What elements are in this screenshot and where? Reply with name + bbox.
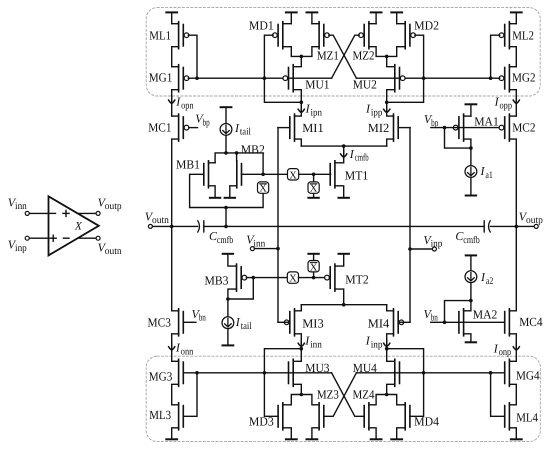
transistor ML1 [179,22,189,49]
label Vinp (op-amp) [8,237,27,254]
svg-text:MC3: MC3 [148,315,171,329]
wire MZ4 gate cross-couple diagonal [332,373,365,417]
svg-text:outn: outn [152,215,169,226]
wire MG2 gate node (right gate wire) [356,77,499,79]
label Ccmfb (left) [209,229,233,246]
svg-text:ML2: ML2 [512,28,534,42]
node MT1 gate junction [312,173,316,177]
wire MT2 source [335,254,349,266]
wire MD3 leads [283,395,302,440]
VDD supply bar above ML1 [166,12,177,23]
node ML3-MG3 gate junction [195,371,199,375]
svg-text:cmfb: cmfb [355,153,369,164]
svg-text:MU3: MU3 [305,361,329,375]
terminal Voutn [148,224,197,228]
transistor MI4 [394,309,404,336]
svg-text:MC1: MC1 [148,121,171,135]
node Vbp junction [443,126,447,130]
label Ionn [175,341,193,358]
svg-text:MA1: MA1 [474,114,499,128]
label Iopp [494,95,512,112]
svg-text:X: X [310,184,318,195]
wire MU2 leads [387,56,395,102]
label Vbp (left) [195,112,209,129]
svg-text:a1: a1 [485,170,493,181]
label MU3 [305,361,329,375]
svg-text:MT1: MT1 [345,169,369,183]
label MZ2 [353,49,375,63]
svg-text:MZ3: MZ3 [317,387,339,401]
svg-text:MC4: MC4 [519,315,543,329]
op-amp polarity signs [50,210,69,241]
wire MC3 leads [172,226,179,361]
transistor MZ2 [359,22,369,49]
wire MI4 drain [387,334,394,349]
node MU3 drain / MI3 drain [300,347,304,351]
node MU1 source / MI1 drain [300,101,304,105]
wire MZ2 gate cross-couple diagonal [332,35,360,78]
label MG3 [149,370,173,384]
svg-text:X: X [289,274,297,285]
svg-text:MB2: MB2 [241,143,265,157]
transistor MG3 [179,359,184,386]
wire MT2 drain [335,289,344,305]
node MD3-MZ3-MU3 drain [300,393,304,397]
label MU2 [353,77,377,91]
label Vbp (right) [424,112,438,129]
svg-text:X: X [259,184,267,195]
wire Vbp bias line (right) [431,127,500,129]
terminal Vinn tap [250,247,278,251]
switch box Xbar (left) [258,182,269,195]
wire MU1 leads [293,56,301,102]
transistor MT2 [325,264,335,291]
label MU1 [305,77,329,91]
label MT2 [345,272,369,286]
label Voutp (op-amp) [98,195,122,212]
terminal Vinp tap [410,247,436,251]
label MB1 [176,157,200,171]
transistor MI2 [394,114,399,141]
svg-text:cmfb: cmfb [463,235,479,246]
transistor MU3 [289,359,294,386]
svg-text:MG3: MG3 [149,370,173,384]
node ML4-MG4 gate junction [489,371,493,375]
label MB3 [205,273,229,287]
wire MZ1 gate cross-couple diagonal [329,35,357,78]
wire MU4 leads [387,349,395,395]
wire MG1 leads [172,67,179,116]
transistor ML2 [499,22,509,49]
wire MI3 source [295,305,302,311]
wire MB3 source wrap [228,278,253,299]
svg-text:MI1: MI1 [302,121,324,135]
label Iipn [305,102,322,119]
VDD supply bar above MZ1 [307,12,318,23]
current arrow Iinn [298,340,304,347]
svg-text:MD3: MD3 [249,414,274,428]
wire MB2 leads [225,153,237,198]
node ML1-MG1 gate junction [195,76,199,80]
transistor MD1 [273,22,283,49]
current arrow Iopn [169,97,175,104]
transistor MB1 [204,161,209,188]
wire MI1 drain [295,102,302,116]
wire ML2 gate [491,35,500,78]
label Voutp [519,209,543,226]
svg-text:ipn: ipn [311,107,323,118]
label Itail (top) [234,121,251,138]
current source Ia1 [465,148,477,195]
current arrow Icmfb [341,150,347,157]
svg-text:MU4: MU4 [353,361,378,375]
wire MZ2 leads [369,24,387,57]
node MB2 gate junction [261,173,265,177]
node MU4 drain / MI4 drain [385,347,389,351]
tick bar above Ia2 [466,254,476,256]
node bottom-rail tap [224,206,228,210]
node MD4-MZ4-MU4 drain [385,393,389,397]
VDD supply bar above ML2 [511,12,522,23]
svg-text:MB3: MB3 [205,273,229,287]
terminal Voutp [534,224,538,228]
wire ML1 gate [188,35,197,78]
label MD1 [249,18,274,32]
supply bar above MA1 [466,104,477,116]
label MC4 [519,315,543,329]
wire MD3 gate up to node [264,349,301,417]
wire X box to MT1 gate [299,173,331,175]
wire Xbar branch (top right) [313,174,315,197]
wire MT1 source [335,186,349,198]
current source Itail (top) [220,107,232,153]
node tail rail center (bottom) [342,303,346,307]
svg-text:inp: inp [15,243,27,254]
svg-text:bp: bp [203,117,210,128]
svg-text:MG1: MG1 [149,70,173,84]
svg-text:ML1: ML1 [149,28,171,42]
op-amp input terminal Vinp [25,236,48,240]
label MG4 [516,368,540,382]
ground tick Xbar branch (top) [308,197,318,199]
VDD supply bar above MD2 [391,12,402,23]
label MZ3 [317,387,339,401]
tick bar Xbar branch (bottom) [308,253,318,255]
node MD4 gate on gate wire [422,371,426,375]
wire MC2 leads [509,116,516,226]
label Vinn (tap) [246,233,265,250]
switch box Xbar (bottom) [308,261,319,274]
switch box X (top) [288,169,299,182]
wire MA2 source [464,334,477,343]
node MA1 source junction [469,146,473,150]
svg-text:MT2: MT2 [345,272,369,286]
wire MI1 gate [278,127,290,129]
node Itail-rail [224,151,228,155]
svg-text:onp: onp [499,347,512,358]
wire MG3 gate node (left gate wire) [183,372,331,374]
node MB3 source [226,297,230,301]
node MU2 source / MI2 drain [385,101,389,105]
wire MI1 source [295,139,302,146]
svg-text:MG4: MG4 [516,368,540,382]
label MG1 [149,70,173,84]
transistor MU1 [283,65,293,92]
svg-text:MU1: MU1 [305,77,329,91]
svg-text:inp: inp [371,339,383,350]
wire ML1 leads [172,24,179,67]
transistor MB2 [237,161,242,188]
svg-text:outn: outn [105,246,122,257]
capacitor Ccmfb (right) [484,221,490,232]
transistor MU2 [395,65,405,92]
wire MC1 leads [172,116,179,226]
svg-text:X: X [310,262,318,273]
wire MI3 drain [295,334,302,349]
svg-text:MA2: MA2 [473,308,498,322]
svg-text:bp: bp [431,118,438,129]
wire MD1 leads [283,24,302,57]
transistor MA2 [459,309,464,336]
label Ionp [493,341,511,358]
node Vinn tap [276,247,280,251]
wire MD2 gate down to node [387,35,424,102]
label MA2 [473,308,498,322]
wire MI4 gate [398,321,410,323]
label Ia2 [480,270,493,287]
transistor MD4 [405,403,410,430]
wire MG4 leads [509,361,516,405]
op-amp X symbol (triangle) [49,196,99,255]
label Itail (bottom) [235,315,252,332]
wire MB1 gate wrap to bottom rail [190,174,264,207]
wire ML4 gate [491,373,505,417]
svg-text:MC2: MC2 [512,121,535,135]
label Iipp [365,102,382,119]
svg-text:MI2: MI2 [368,121,390,135]
svg-text:bn: bn [431,313,438,324]
transistor ML4 [505,403,510,430]
wire output center section [204,225,484,227]
label ML4 [516,410,538,424]
transistor ML3 [179,403,184,430]
current arrow Iipp [384,106,390,113]
svg-text:MZ2: MZ2 [353,49,375,63]
svg-text:opn: opn [181,100,194,111]
transistor MU4 [395,359,400,386]
switch box Xbar (top right) [308,182,319,195]
svg-text:inn: inn [253,239,265,250]
label Iinn [304,334,322,351]
label ML1 [149,28,171,42]
transistor MI3 [284,309,294,336]
transistor MD3 [278,403,283,430]
svg-text:MB1: MB1 [176,157,200,171]
wire MG2 leads [509,67,516,116]
node tail rail center [342,144,346,148]
wire MZ3 gate cross-couple diagonal [324,373,357,417]
svg-text:MZ4: MZ4 [353,387,376,401]
dashed box (bottom load section) [146,356,540,441]
svg-text:MG2: MG2 [512,71,536,85]
wire MG4 gate node (right gate wire) [356,372,504,374]
svg-text:MD1: MD1 [249,18,274,32]
svg-text:X: X [289,170,297,181]
transistor MG1 [179,65,189,92]
label MI4 [368,316,390,330]
label MC2 [512,121,535,135]
tick bar above MB3 [223,253,233,255]
wire ML3 leads [166,405,178,440]
label Voutn [145,209,169,226]
op-amp input terminal Vinn [25,211,48,215]
svg-text:tail: tail [240,127,251,138]
node MD2 gate on gate wire [422,76,426,80]
capacitor Ccmfb (left) [198,221,204,232]
node MD2-MZ2-MU2 drain [385,55,389,59]
wire MI2 drain [387,102,394,116]
svg-text:X: X [74,221,83,233]
wire X box to MT2 gate [299,277,326,279]
svg-text:cmfb: cmfb [217,235,233,246]
label MB2 [241,143,265,157]
svg-text:bn: bn [199,313,206,324]
node MB3 gate junction [252,276,256,280]
node MD1 gate on gate wire [263,76,267,80]
current arrow Iopp [513,97,519,104]
wire MZ3 leads [301,395,319,440]
current arrow Iipn [298,106,304,113]
svg-text:inp: inp [431,239,443,250]
label Icmfb [349,147,369,164]
transistor MC1 [179,114,189,141]
current source Ia2 [465,257,477,301]
current arrow Iinp [384,340,390,347]
switch box X (bottom) [287,272,298,285]
label MA1 [474,114,499,128]
label MD2 [414,18,439,32]
label Vbn (left) [192,307,206,324]
VDD supply bar above MZ2 [371,12,382,23]
label Ccmfb (right) [455,229,479,246]
transistor MZ4 [364,403,369,430]
wire ML4 leads [509,405,521,440]
op-amp label X [74,221,83,233]
svg-text:MD4: MD4 [414,414,440,428]
transistor MC4 [505,309,510,336]
current source Itail (bottom) [222,299,234,345]
wire Vbn bias line (right) [431,321,504,323]
wire MI2 source [387,139,394,146]
label MC3 [148,315,171,329]
wire ML3 gate [183,373,197,417]
label Iopn [175,95,193,112]
label Vinp (tap) [423,233,442,250]
svg-text:MU2: MU2 [353,77,377,91]
wire MI3 gate [278,321,290,323]
label Vbn (right) [424,307,438,324]
svg-text:outp: outp [105,201,122,212]
wire MD1 gate down to node [264,35,301,102]
wire MD4 gate up to node [387,349,424,417]
svg-text:opp: opp [500,100,513,111]
label MI2 [368,121,390,135]
node output rail right [515,225,519,229]
node Vinp tap [408,247,412,251]
wire MI1-MI2 source rail [301,145,386,147]
svg-text:ipp: ipp [371,107,383,118]
wire MZ4 leads [369,395,387,440]
node output rail left [170,225,174,229]
svg-text:ML3: ML3 [149,408,171,422]
transistor MI1 [290,114,295,141]
wire MC3 gate stub Vbn [183,321,196,323]
wire MD2 leads [387,24,406,57]
wire ML2 leads [509,24,516,67]
wire MB1-MB2 top rail [215,153,263,174]
wire MA2 gate wrap [445,301,471,323]
node ML2-MG2 gate junction [489,76,493,80]
label MZ4 [353,387,376,401]
wire MT1 drain [335,146,344,163]
wire MA1 gate wrap [445,128,471,149]
label MD3 [249,414,274,428]
svg-text:a2: a2 [486,276,494,287]
svg-text:inn: inn [310,339,322,350]
wire MA1 drain [464,115,471,117]
wire MG1 gate node (left gate wire) [188,77,331,79]
transistor MC2 [499,114,509,141]
svg-text:outp: outp [526,215,543,226]
wire MD4 leads [387,395,406,440]
wire MB1 leads [209,163,221,198]
wire Xbar branch (bottom) [313,255,315,278]
op-amp output terminal Voutn [78,236,100,240]
wire MI3-MI4 source rail [301,304,386,306]
label ML2 [512,28,534,42]
wire MI2 gate [398,127,410,129]
wire MC4 leads [509,226,516,361]
wire MZ1 leads [301,24,319,57]
wire rail tap to output line [225,208,227,227]
wire MB3 gate [246,277,287,279]
label Iinp [365,334,383,351]
svg-text:inn: inn [15,201,27,212]
wire MB2 gate to switch row [242,173,288,175]
node MA2 drain junction [469,299,473,303]
transistor MZ1 [319,22,329,49]
label MD4 [414,414,440,428]
label MI3 [302,316,324,330]
node cmfb tap [224,225,228,229]
node Vbn junction [443,321,447,325]
transistor MA1 [453,114,463,141]
transistor MZ3 [319,403,324,430]
wire output right to Voutp [490,225,534,227]
svg-text:MI4: MI4 [368,316,390,330]
label MG2 [512,71,536,85]
transistor MB3 [237,264,247,291]
wire MU3 leads [293,349,301,395]
label MU4 [353,361,378,375]
label Vinn (op-amp) [8,195,27,212]
wire Vinp column [409,128,411,323]
node MT2 gate junction [312,276,316,280]
wire MG3 leads [172,361,179,405]
svg-text:onn: onn [181,346,194,357]
wire MI4 source [387,305,394,311]
node MD1-MZ1-MU1 drain [300,55,304,59]
